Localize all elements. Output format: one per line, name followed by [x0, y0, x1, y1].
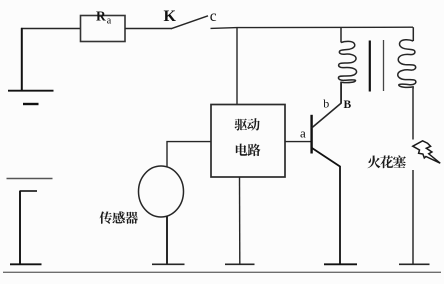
- ground crossbar under battery: [10, 263, 42, 265]
- label 传感器 (sensor): [99, 211, 112, 223]
- label 火花塞 (spark plug): [368, 156, 381, 169]
- wire battery- down to ground: [19, 191, 21, 265]
- svg-text:B: B: [344, 99, 352, 111]
- sensor circle: [139, 166, 184, 217]
- svg-text:a: a: [300, 125, 306, 140]
- ground crossbar under spark plug: [399, 263, 430, 265]
- battery GB cell2 long plate (+): [7, 178, 53, 180]
- battery GB cell1 long plate (+): [8, 90, 54, 92]
- ground crossbar under emitter: [324, 263, 357, 265]
- wire resistor to switch: [125, 28, 172, 30]
- ignition coil core line 2: [383, 40, 385, 91]
- spark bolt symbol: [413, 141, 440, 163]
- drive circuit box U1: [211, 105, 285, 178]
- switch K lever: [171, 16, 208, 29]
- label 电路 (circuit): [236, 144, 248, 156]
- transistor VT base bar: [310, 115, 312, 154]
- svg-text:b: b: [323, 97, 329, 111]
- label 驱动 (drive): [235, 119, 247, 131]
- wire drive box right to transistor base: [285, 141, 312, 143]
- wire drive box bottom to ground: [239, 177, 241, 264]
- wire spark gap to ground: [412, 170, 414, 264]
- svg-text:K: K: [164, 8, 177, 25]
- svg-text:R: R: [96, 9, 106, 24]
- resistor Ra box: [81, 16, 126, 42]
- battery GB cell2 short plate (-): [20, 190, 38, 192]
- ground rail bottom: [3, 271, 441, 273]
- ignition coil core line 1: [369, 41, 371, 92]
- ground crossbar under sensor: [152, 263, 185, 265]
- wire battery+ to resistor (top-left horizontal): [21, 28, 81, 30]
- ignition coil primary winding L1: [340, 28, 342, 43]
- ground crossbar under drive box: [225, 263, 255, 265]
- svg-text:a: a: [107, 15, 112, 26]
- wire left vertical battery feed: [21, 28, 23, 91]
- wire sensor bottom to ground: [166, 217, 168, 265]
- ignition coil secondary winding L2: [412, 27, 414, 41]
- wire top rail down to drive circuit box: [236, 28, 238, 105]
- transistor VT emitter stroke: [312, 148, 340, 264]
- transistor VT collector stroke: [312, 82, 341, 128]
- wire top rail c to ignition coil: [211, 27, 414, 28]
- svg-text:c: c: [210, 8, 217, 25]
- wire drive box left to sensor: [167, 142, 211, 167]
- battery GB cell1 short plate (-): [23, 103, 39, 105]
- wire secondary down to spark gap: [412, 87, 414, 140]
